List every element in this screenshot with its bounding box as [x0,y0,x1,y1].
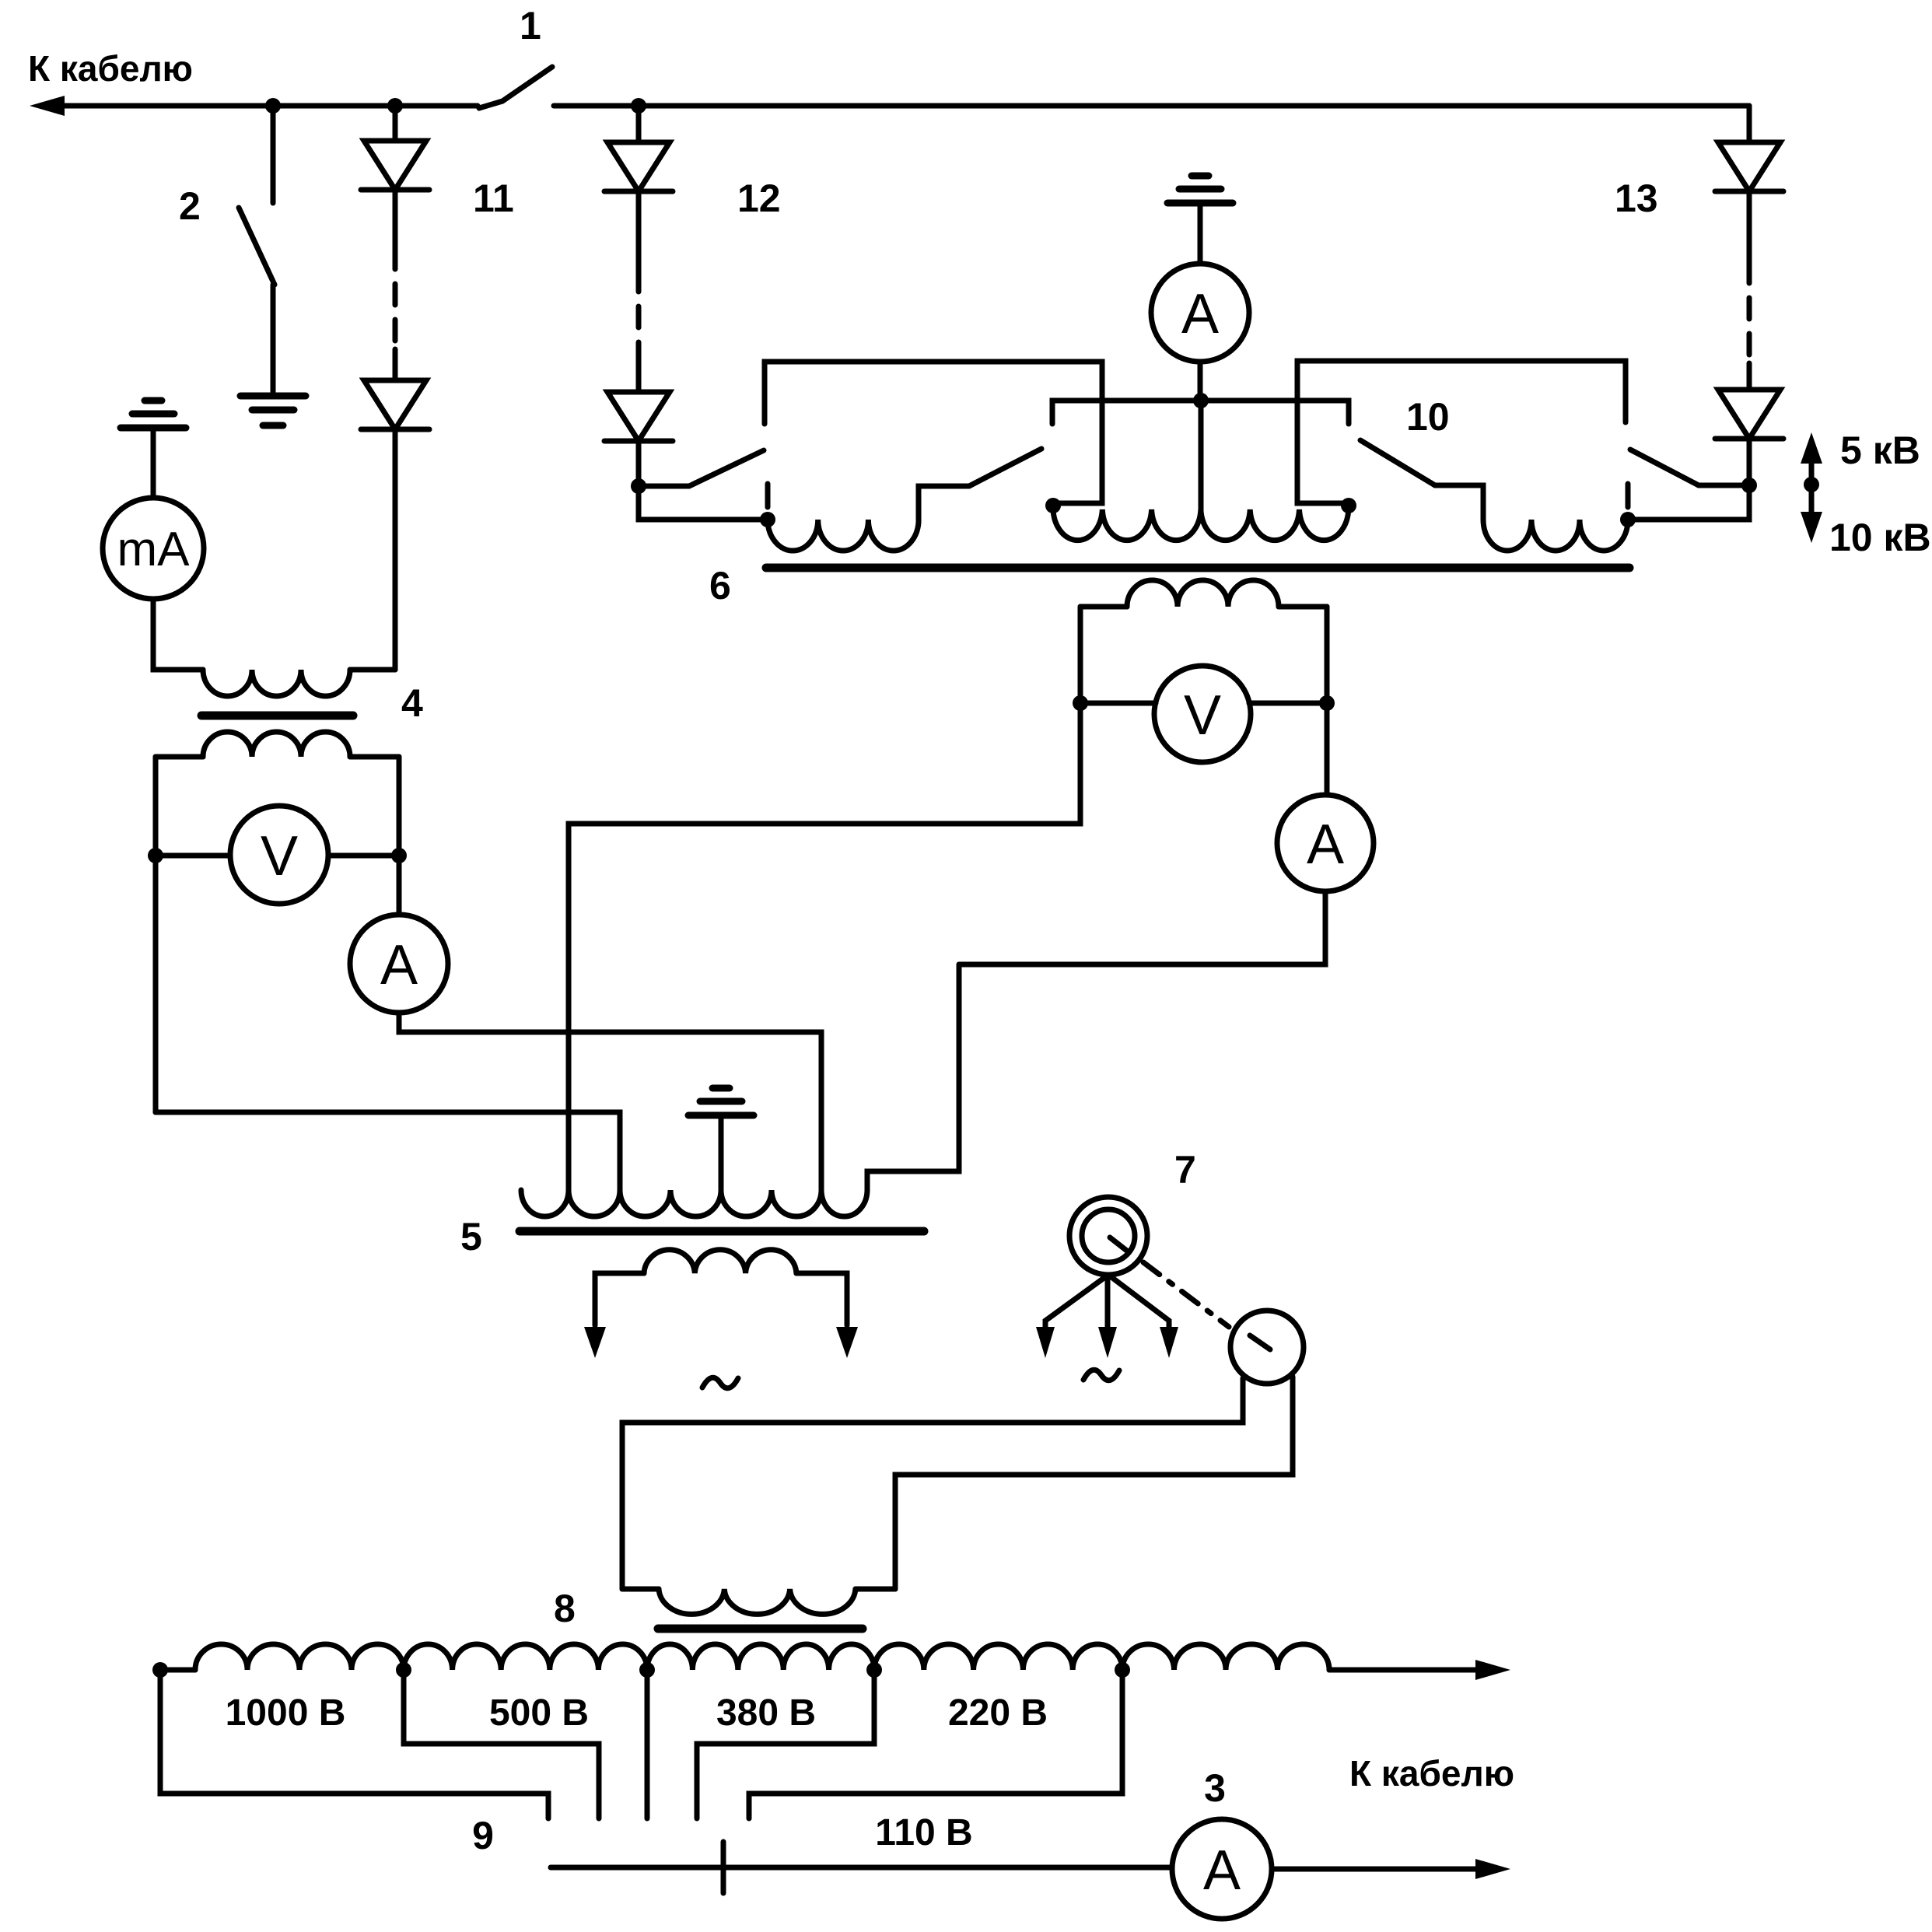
junction: diode 13 bottom [1741,478,1757,493]
svg-text:A: A [1181,283,1219,345]
dash-dot link (7) [1143,1262,1229,1327]
meter mA [103,498,204,599]
junction: bus-diode11 [387,98,403,114]
diode stack 12 (lower diode) [604,177,781,486]
wire: diode 13 dashed gap [1747,191,1752,390]
selector wiper line 9 [551,1842,1172,1893]
label 500V [489,1692,589,1734]
meter V (T4) [148,806,407,904]
svg-text:500 В: 500 В [489,1692,589,1734]
transformer T4 core [201,681,423,725]
junction: diode 12 bottom [631,478,646,494]
svg-text:1: 1 [520,4,541,47]
transformer T6 winding C [1483,520,1628,551]
junction: winding 6B right [1341,498,1356,513]
wire: tap 220V to selector [749,1670,1122,1818]
indicator lamp 7 [1069,1197,1147,1275]
label 7 [1174,1148,1196,1192]
svg-text:13: 13 [1615,177,1658,220]
AC symbol under T5 [702,1377,738,1388]
wire: ground to A (T6 top) [1198,203,1203,264]
wire: knob left lead to T8 [622,1378,1243,1589]
wire: diode 11 dashed gap [393,190,398,380]
svg-text:mA: mA [117,523,191,576]
wire: tap 0 to selector [160,1670,548,1818]
wire: T5 right end up [867,964,959,1190]
diode stack 11 (lower diode) [361,177,514,670]
transformer T5 secondary winding [595,1250,847,1325]
AC symbol under 7 [1083,1370,1119,1380]
svg-text:10 кВ: 10 кВ [1829,516,1931,559]
junction: tap 220V [1115,1662,1130,1678]
svg-text:5 кВ: 5 кВ [1840,429,1920,472]
selector fan arrows (7) [1036,1275,1178,1358]
junction: tap 0 [152,1662,168,1678]
svg-text:11: 11 [473,177,514,220]
meter A (T6 top) [1151,264,1249,362]
svg-text:5: 5 [460,1215,482,1258]
wire: diode12 junction to winding 6A [639,486,768,520]
selector knob (7) [1230,1311,1304,1384]
junction: bus-diode12 [631,98,646,114]
meter V (T6) [1073,666,1335,762]
switch blade 6C-right [1630,450,1749,485]
wire: top bus right section [554,103,1749,109]
svg-text:3: 3 [1204,1766,1226,1810]
diode stack 11 (upper diode) [361,106,429,190]
transformer T4 secondary winding [156,732,399,757]
svg-text:7: 7 [1174,1148,1196,1192]
wire: tap 500V to selector [645,1670,650,1818]
junction: winding 6B left [1045,498,1061,513]
meter A (T6 loop) [1277,795,1374,891]
meter A (T4) [350,915,448,1013]
wire: T6 center tap [1199,401,1204,509]
junction: tap 500V [639,1662,655,1678]
switch blade 6C-left [1360,440,1483,520]
svg-text:110 В: 110 В [875,1812,972,1853]
label: к кабелю bottom [1349,1753,1514,1794]
junction: winding 6A left [760,512,775,527]
svg-text:4: 4 [401,681,423,725]
wire: A to ammeter bus [1198,362,1203,401]
switch S1 [479,4,552,108]
wire: tap 380V to selector [697,1670,874,1818]
wire: tap 1000V to selector [404,1670,599,1818]
ground: mA branch [121,401,186,428]
svg-text:К кабелю: К кабелю [1349,1753,1514,1794]
junction: bus-switch2 [265,98,281,114]
meter A (3) [1172,1766,1272,1919]
switch blade 6A-left [639,450,764,486]
svg-text:10: 10 [1406,395,1450,439]
voltage span arrows 5kV/10kV [1801,429,1931,559]
svg-text:2: 2 [179,184,201,228]
contact stub: winding 6A left [765,484,771,507]
transformer T5 primary winding [521,1190,867,1216]
diode stack 13 (lower diode) [1615,177,1783,485]
transformer T5 core [460,1215,924,1258]
diode stack 13 (upper diode) [1715,106,1783,191]
svg-text:V: V [1184,684,1221,747]
output arrow: T5 secondary right [836,1327,858,1358]
svg-text:220 В: 220 В [948,1692,1048,1734]
wire: T4 secondary right leg [397,757,402,915]
wire: T4 secondary left leg [153,757,159,1112]
bracket: T6 section A [765,362,1102,503]
transformer T8 core [554,1587,863,1630]
output arrow: T5 secondary left [584,1327,606,1358]
autotransformer 9 winding [160,1644,1329,1670]
wire: ground to mA [151,428,156,498]
wire: A(T6) to T5 right side [959,891,1325,964]
wire: diode 12 dashed gap [636,191,642,392]
transformer T6 winding A [768,520,919,551]
wire: T4 primary to diode 11 [350,667,395,673]
node: top bus to cable [28,48,478,116]
label 110V [875,1812,972,1853]
wire: winding 6C to diode 13 branch [1628,485,1749,520]
transformer T4 primary winding [203,670,350,696]
transformer T6 secondary winding [1080,580,1327,607]
junction: tap 1000V [396,1662,411,1678]
wire: A(T4) to T5 winding [399,1013,821,1190]
junction: tap 380V [866,1662,882,1678]
switch S2 [179,106,275,393]
svg-text:A: A [1307,814,1344,876]
bracket: T6 section B [1297,361,1626,503]
svg-text:9: 9 [472,1814,494,1857]
svg-text:8: 8 [554,1587,576,1630]
svg-text:A: A [1203,1839,1241,1902]
wire: knob right lead to T8 [895,1377,1293,1589]
svg-text:К кабелю: К кабелю [28,48,193,89]
svg-text:A: A [380,934,418,996]
wire: A3 to cable [1272,1859,1510,1879]
wire: T6 sec left leg [569,607,1080,1190]
label 9 [472,1814,494,1857]
wire: coil9 output right [1329,1660,1510,1680]
svg-text:12: 12 [737,177,781,220]
label 380V [716,1692,816,1734]
svg-text:V: V [261,825,298,887]
transformer T8 primary winding [622,1589,895,1614]
wire: mA to T4 primary [153,599,203,670]
ground: T5 center tap [688,1088,754,1190]
diode stack 12 (upper diode) [604,106,673,191]
wire: T6 sec right leg [1325,607,1330,795]
label 10 [1406,395,1450,439]
junction: winding 6C right [1620,512,1636,527]
node: ammeter bus T6 [1052,393,1349,424]
transformer T6 core [709,564,1629,607]
ground: T6 ammeter [1167,176,1233,203]
svg-text:6: 6 [709,564,731,607]
transformer T6 winding B [1053,509,1349,541]
contact stub: winding 6C right [1626,484,1631,507]
svg-text:1000 В: 1000 В [226,1692,346,1734]
label 1000V [226,1692,346,1734]
wire: T4 bottom loop to T5 winding [156,1112,620,1190]
ground: switch 2 [240,396,306,425]
label 220V [948,1692,1048,1734]
svg-text:380 В: 380 В [716,1692,816,1734]
switch blade 6A-right [919,449,1041,520]
